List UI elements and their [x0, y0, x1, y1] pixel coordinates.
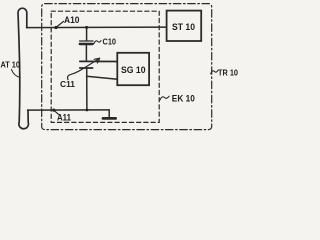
wire from antenna bottom (A11) to ground: [28, 109, 110, 111]
capacitor C11 bottom plate: [80, 67, 93, 69]
svg-text:TR 10: TR 10: [218, 67, 238, 77]
wire from C10 to C11: [85, 45, 87, 61]
capacitor C10 top plate: [80, 40, 93, 42]
junction node at C10 branch: [85, 26, 88, 29]
node A10: [54, 26, 57, 29]
leader tilde of EK10 label: [160, 96, 169, 100]
wire down to ground symbol: [108, 110, 110, 117]
svg-text:A10: A10: [64, 15, 80, 25]
svg-text:C11: C11: [60, 79, 75, 89]
leader tilde of TR10 label: [211, 70, 218, 74]
enclosure TR10 dash-dot box: [42, 4, 212, 130]
svg-text:ST 10: ST 10: [172, 22, 195, 33]
capacitor C11 top plate and wire to SG10: [80, 60, 118, 62]
leader tilde of C10 label: [94, 41, 101, 44]
arrowhead barbs of C11 arrow: [94, 58, 100, 63]
svg-text:A11: A11: [57, 113, 71, 123]
antenna AT10 rod: [18, 8, 28, 129]
ground: [103, 117, 116, 120]
svg-text:SG 10: SG 10: [121, 65, 146, 76]
svg-text:AT 10: AT 10: [1, 59, 21, 69]
tick from node A11 to its label: [54, 110, 59, 114]
wire from node down to C10: [86, 27, 88, 40]
variable-capacitor arrow of C11: [68, 59, 99, 79]
svg-text:C10: C10: [103, 37, 117, 47]
capacitor C10 bottom plate: [80, 43, 93, 45]
junction node at C11 / A11 wire: [86, 109, 89, 112]
svg-text:EK 10: EK 10: [172, 94, 195, 104]
block ST10: [167, 11, 202, 41]
wire from antenna top to ST10: [27, 26, 167, 29]
wire from C11 node to SG10 bottom input: [87, 76, 118, 79]
block EK10 dashed box: [51, 11, 159, 122]
leader from AT10 label to rod: [12, 70, 21, 78]
wire from C11 node down to A11 wire: [86, 69, 88, 111]
node A11: [52, 109, 55, 112]
block SG10: [117, 53, 149, 85]
tick from node A10 to its label: [56, 21, 63, 27]
